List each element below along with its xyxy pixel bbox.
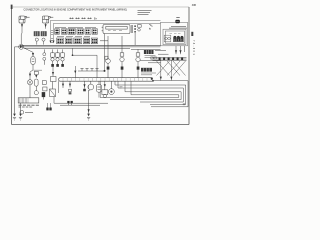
svg-text:CONNECTOR LOCATIONS IN ENGINE: CONNECTOR LOCATIONS IN ENGINE COMPARTMEN…	[24, 7, 128, 11]
svg-text:74-301: 74-301	[192, 40, 195, 56]
svg-text:30B: 30B	[192, 5, 197, 7]
